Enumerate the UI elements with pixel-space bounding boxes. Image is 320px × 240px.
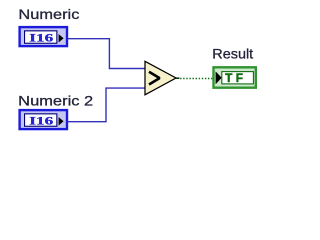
- greater-than glyph: [149, 72, 160, 85]
- control terminal Numeric 2 (I16): [20, 110, 67, 129]
- wire Numeric 2 to comparator: [67, 88, 146, 122]
- svg-text:TF: TF: [225, 71, 246, 85]
- control terminal Numeric (I16): [20, 27, 67, 46]
- output nub: [176, 77, 179, 79]
- output arrow: [59, 34, 64, 42]
- svg-text:Result: Result: [212, 46, 253, 62]
- svg-text:Numeric 2: Numeric 2: [18, 92, 93, 108]
- inner white box: [25, 31, 57, 43]
- wire Numeric to comparator: [67, 39, 146, 69]
- outer box: [20, 27, 67, 46]
- indicator terminal Result (TF): [214, 67, 256, 87]
- boolean dotted wire: [180, 78, 212, 80]
- svg-text:Numeric: Numeric: [18, 6, 79, 22]
- Greater? comparator node: [145, 61, 179, 95]
- svg-text:I16: I16: [29, 115, 53, 127]
- svg-text:I16: I16: [29, 32, 53, 44]
